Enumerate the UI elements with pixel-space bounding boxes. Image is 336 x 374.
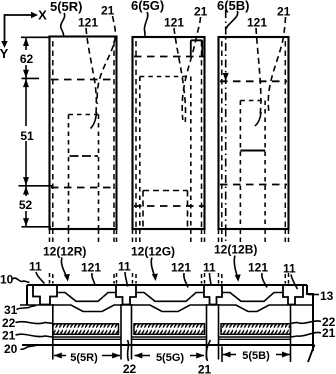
leader 10 — [13, 278, 30, 282]
inner region 12 (B) top — [240, 100, 265, 102]
electrode 12 basin (B) — [222, 293, 283, 302]
sub-pixel 5(5R) outline — [50, 37, 117, 230]
21 dashed line left (B) — [221, 41, 223, 228]
svg-text:121: 121 — [247, 16, 267, 30]
left dimension line — [25, 38, 27, 227]
svg-text:21: 21 — [101, 4, 115, 18]
svg-text:11: 11 — [118, 260, 131, 274]
svg-text:22: 22 — [123, 362, 137, 374]
leader 121 (B) hook — [255, 112, 261, 126]
svg-text:52: 52 — [19, 198, 33, 212]
dim tick bottom — [22, 226, 52, 228]
dimension 5(5B) line — [223, 354, 291, 356]
leader 121 (R bottom) — [92, 273, 95, 285]
leader 5(5B) — [226, 11, 238, 29]
svg-text:21: 21 — [198, 363, 212, 374]
dim tick 62/51 — [22, 77, 40, 79]
svg-text:51: 51 — [20, 129, 34, 143]
leader 21 (G) dashed — [182, 17, 200, 120]
dashed boundary 62/51 (R) — [51, 79, 116, 81]
bank 11 left end — [33, 285, 57, 305]
dim arrows 51 — [23, 79, 29, 87]
step 13 at right — [307, 285, 313, 351]
axis Y arrow — [1, 41, 7, 48]
inner region 121 (G) right — [187, 191, 189, 229]
svg-text:Y: Y — [0, 46, 9, 61]
electrode 12 basin (G) — [136, 293, 204, 302]
inner region 121 top (R) — [70, 155, 99, 157]
stack edge line left (ext 5R) — [52, 304, 54, 360]
bank 11 between R and G — [116, 285, 136, 305]
svg-text:6(5B): 6(5B) — [217, 0, 250, 13]
svg-text:21: 21 — [322, 326, 336, 340]
dashed boundary upper (B) — [220, 80, 287, 82]
dim tick top — [21, 36, 50, 38]
leader 11 (far left) — [36, 272, 45, 284]
electrode 12 basin (R) — [57, 293, 116, 302]
bank 11 right end — [283, 285, 303, 305]
svg-text:121: 121 — [81, 261, 101, 275]
dim label 62 — [18, 50, 35, 65]
svg-text:21: 21 — [194, 5, 208, 19]
layer 10 top line — [27, 284, 307, 286]
dashed boundary upper (G) — [134, 56, 204, 58]
inner region 12 (R) left side — [68, 115, 70, 229]
svg-text:12(12B): 12(12B) — [214, 243, 257, 257]
leader 22 bottom — [128, 340, 129, 361]
leader 21 bottom — [206, 340, 210, 361]
dimension 5(5R) line — [54, 355, 120, 357]
svg-text:13: 13 — [320, 289, 334, 303]
21 dashed line left (R) — [52, 41, 54, 228]
leader 12(12B) — [234, 256, 237, 278]
dimension 5(5B) extension left — [221, 347, 223, 363]
21 dashed line right (G) — [201, 41, 203, 228]
dim tick 51/52 — [19, 185, 53, 187]
inner region 121 (G) top — [143, 190, 188, 192]
leader 21 right — [291, 332, 321, 337]
dashed boundary lower (G) — [134, 205, 204, 207]
leader 5(5R) — [61, 13, 65, 37]
dim label 51 — [19, 126, 35, 141]
leader 20 — [21, 346, 37, 350]
dimension 5(5G) line — [135, 355, 205, 357]
trench lines between stacks 1-2 (ext) — [121, 304, 132, 360]
dashed boundary 51/52 (R) — [51, 187, 116, 189]
wiring layer 22 stack R — [53, 324, 119, 335]
svg-text:121: 121 — [78, 16, 98, 30]
svg-text:21: 21 — [2, 329, 16, 343]
leader 11 (right of G) — [210, 273, 212, 285]
dim label 52 — [18, 196, 34, 211]
bank 11 between G and B — [204, 285, 222, 305]
svg-text:5(5G): 5(5G) — [156, 352, 184, 364]
inner region 12 (G) top — [140, 76, 191, 78]
leader 12(12R) — [61, 258, 66, 277]
svg-text:121: 121 — [248, 261, 268, 275]
projection stubs above section (R) — [50, 273, 117, 284]
leader 121 (G bottom) — [184, 273, 188, 288]
svg-text:121: 121 — [164, 16, 184, 30]
wiring layer 22 stack G — [134, 324, 205, 335]
svg-text:20: 20 — [4, 342, 18, 356]
wiring layer 22 stack B — [221, 324, 291, 335]
21 dashed line right (B) — [284, 41, 286, 228]
dim arrows 52 — [23, 186, 29, 194]
leader 121 (G) dashed — [174, 28, 186, 122]
inner region 12 (G) left side — [139, 77, 141, 229]
svg-text:11: 11 — [283, 262, 296, 276]
svg-text:6(5G): 6(5G) — [131, 0, 164, 13]
projection stubs above section (G) — [133, 273, 205, 284]
inner region 121 top (B) — [240, 150, 265, 152]
contact region top-right (G) — [191, 40, 203, 56]
leader stroke right bottom — [308, 345, 315, 363]
leader 11 (left of G) — [125, 272, 128, 287]
svg-text:31: 31 — [4, 303, 18, 317]
leader 21 (R) dashed — [97, 16, 115, 104]
inner region 12 (R) top — [69, 114, 99, 116]
leader 121 (R) hook — [91, 112, 97, 129]
leader 13 — [308, 294, 319, 296]
leader 21 (B) dashed — [268, 17, 285, 112]
stack edge line right (ext 5B) — [290, 304, 292, 362]
centerline arrow (B) — [223, 73, 229, 81]
svg-text:X: X — [38, 8, 47, 23]
inner region 12 (B) left side — [239, 101, 241, 229]
axis X — [5, 15, 32, 41]
leader 121 (R) dashed — [86, 28, 96, 118]
layer 31 line — [20, 305, 313, 312]
centerline (B) dash-dot — [225, 10, 227, 228]
svg-text:21: 21 — [277, 5, 291, 19]
layer 10 left edge — [26, 285, 28, 305]
svg-text:12(12R): 12(12R) — [43, 245, 86, 259]
inner region 12 (R) right side — [98, 115, 100, 229]
inner region 121 (G) left — [142, 191, 144, 229]
leader 22 right — [291, 321, 321, 323]
svg-text:5(5R): 5(5R) — [70, 352, 98, 364]
svg-text:5(5B): 5(5B) — [242, 350, 270, 362]
dashed boundary lower (B) — [220, 184, 287, 186]
leader 11 (far right) — [291, 275, 298, 290]
leader 22 left — [16, 322, 53, 324]
svg-text:11: 11 — [29, 260, 42, 274]
leader 21 left — [16, 334, 53, 337]
svg-text:11: 11 — [203, 261, 216, 275]
21 dashed line right (R) — [113, 41, 115, 228]
svg-text:5(5R): 5(5R) — [50, 0, 83, 14]
inner region 12 (G) right side — [190, 77, 192, 229]
sub-pixel 5(5G) outline — [133, 37, 205, 229]
svg-text:62: 62 — [20, 52, 34, 66]
inner region 12 (B) right side — [264, 101, 266, 229]
svg-text:12(12G): 12(12G) — [131, 245, 175, 259]
projection stubs below 5(5B) — [218, 230, 220, 244]
leader 5(5G) — [144, 12, 147, 37]
svg-text:10: 10 — [0, 273, 14, 287]
svg-text:121: 121 — [171, 261, 191, 275]
circuit layer 21 line b — [53, 338, 291, 340]
projection stubs above section (B) — [219, 273, 289, 284]
substrate 20 line — [22, 344, 313, 346]
leader 121 (B) dashed — [256, 28, 261, 116]
leader 31 — [17, 306, 37, 310]
projection stubs below 5(5R) — [49, 230, 51, 244]
trench lines between stacks 2-3 (ext) — [207, 304, 219, 360]
dim arrows 62 — [23, 38, 29, 46]
leader 12(12G) — [151, 258, 154, 277]
circuit layer 21 line a — [53, 336, 291, 338]
projection stubs below 5(5G) — [132, 230, 134, 244]
leader 121 (B bottom) — [262, 273, 267, 288]
21 dashed line left (G) — [135, 41, 137, 228]
sub-pixel 5(5B) outline — [219, 37, 289, 229]
